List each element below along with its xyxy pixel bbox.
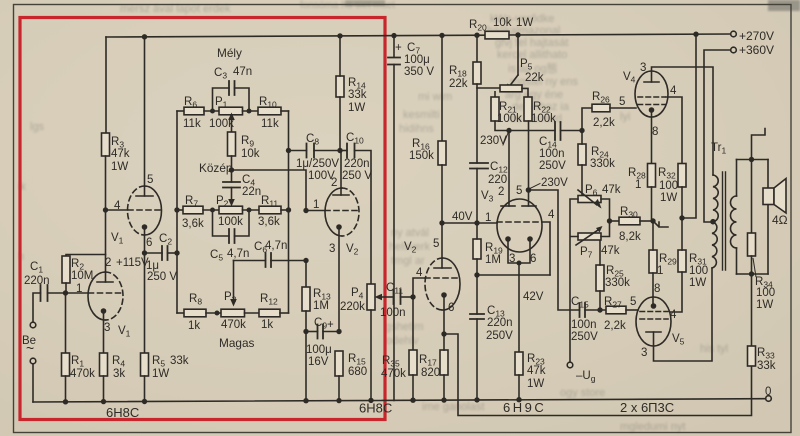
wire: feedback line from V2b cathode to R33: [444, 334, 752, 416]
resistor R18: [473, 62, 481, 84]
svg-text:100k: 100k: [497, 113, 522, 125]
wire: R1 feed: [65, 293, 67, 353]
node: rail junction R16: [439, 33, 444, 38]
potentiometer P1: [219, 107, 243, 115]
wire: R19 leads: [476, 223, 478, 275]
wire: R10 to right rail: [281, 110, 289, 112]
terminal +360V: [731, 47, 737, 53]
V1a cathode: [101, 308, 107, 314]
node: C14 / R26 / R24 junction: [579, 128, 584, 133]
potentiometer P3: [221, 309, 245, 317]
svg-text:100n: 100n: [571, 319, 597, 331]
svg-text:47n: 47n: [233, 66, 252, 78]
wire: C6 to V2a grid column: [271, 260, 306, 262]
wire: bracket to R30: [610, 220, 620, 222]
wire: R23 to ground rail: [518, 375, 520, 400]
svg-text:5: 5: [433, 238, 439, 250]
svg-text:220n: 220n: [487, 317, 513, 329]
wire: rail to R6: [177, 110, 184, 112]
wire: V3 left plate lead: [508, 131, 510, 207]
wire: tone network right rail: [288, 111, 290, 313]
wire: B+ top rail left part: [106, 35, 485, 37]
node: C15 / R25 / R27 junction: [597, 307, 602, 312]
wire: R1 to ground rail: [65, 376, 67, 402]
beam tetrode V5 envelope: [636, 297, 671, 346]
svg-text:1k: 1k: [261, 319, 273, 331]
svg-text:33k: 33k: [170, 355, 189, 367]
svg-text:330k: 330k: [605, 277, 630, 289]
svg-text:5: 5: [619, 96, 625, 108]
resistor R16: [438, 141, 446, 165]
svg-text:6H9C: 6H9C: [503, 400, 546, 415]
wire: V1a cathode to R4: [103, 311, 105, 353]
wire: R3 to V1b grid node to V1a plate: [105, 156, 107, 272]
resistor R1: [62, 353, 70, 376]
wire: V3 cathode bracket: [508, 239, 530, 263]
svg-text:100μ: 100μ: [306, 344, 332, 356]
wire: R13 to C9 node: [305, 311, 307, 332]
terminal Be lower: [30, 358, 36, 364]
230V leader line: [503, 133, 508, 145]
triode V1b envelope: [145, 186, 162, 235]
potentiometer P5: [500, 85, 522, 92]
wire: V4 plate to transformer primary top: [652, 67, 714, 175]
resistor R24: [578, 144, 586, 165]
resistor R5: [141, 353, 149, 376]
V2a grid dashes: [325, 210, 359, 212]
wire: mid line to V2a grid column: [232, 170, 307, 211]
svg-text:2 x 6П3C: 2 x 6П3C: [620, 400, 674, 415]
svg-text:100n: 100n: [539, 148, 565, 160]
svg-text:6H8C: 6H8C: [359, 401, 392, 416]
wire: node to R31: [681, 218, 683, 250]
wire: R5 to ground rail: [144, 376, 146, 402]
node: rail junction P5: [515, 32, 520, 37]
resistor R13: [302, 287, 310, 311]
wire: R32 to screen node: [681, 187, 683, 218]
potentiometer P2: [219, 206, 243, 214]
node: R19 top junction: [474, 220, 479, 225]
wire: P3 to R12: [245, 312, 260, 314]
resistor R6: [184, 107, 204, 115]
capacitor C11 plates: [394, 290, 401, 304]
V4 grid dashes: [638, 96, 665, 98]
wire: R2 top to plate line: [66, 255, 106, 257]
svg-text:ny atvál: ny atvál: [391, 227, 429, 239]
wire: R6 to P1: [204, 110, 219, 112]
resistor R15: [335, 351, 343, 376]
svg-text:1W: 1W: [516, 17, 533, 29]
svg-text:100μ: 100μ: [404, 54, 430, 66]
svg-text:820: 820: [421, 367, 440, 379]
svg-text:47k: 47k: [601, 245, 620, 257]
V2a cathode: [336, 224, 342, 230]
svg-text:~: ~: [26, 340, 34, 356]
leader R34: [753, 258, 756, 277]
svg-text:6H8C: 6H8C: [106, 405, 139, 420]
wire: R14 to plate node: [339, 97, 341, 151]
wire: R35 feed: [412, 297, 414, 350]
node: rail junction +270 screen feed: [693, 32, 698, 37]
potentiometer P4: [367, 284, 375, 310]
svg-text:47k: 47k: [602, 184, 621, 196]
svg-text:100k: 100k: [531, 113, 556, 125]
wire: R13 node to ground rail: [305, 332, 307, 401]
wire: R25 top to P7 wiper: [599, 237, 601, 265]
wire: R31 to V5 screen pin4: [670, 272, 682, 312]
potentiometer P6: [578, 196, 601, 203]
wire: V3 right grid to R19 bottom line: [542, 222, 550, 275]
wire: P5 wiper feed from rail: [517, 35, 519, 75]
wire: branch to P5 left: [477, 87, 500, 89]
capacitor C13 plates: [470, 314, 484, 319]
svg-text:0: 0: [765, 386, 771, 398]
capacitor C3 plates: [229, 81, 235, 95]
node: cathode / R15 junction: [336, 329, 341, 334]
svg-text:1W: 1W: [152, 368, 169, 380]
node: R14 / C8 / C10 / V2a plate junction: [337, 148, 342, 153]
svg-text:lgs: lgs: [30, 121, 45, 133]
P7 wiper arrow: [576, 230, 598, 245]
svg-text:3: 3: [641, 347, 647, 359]
node: bracket to R30: [607, 218, 612, 223]
resistor R27: [606, 306, 626, 314]
capacitor C5 bridge left: [213, 210, 230, 236]
svg-text:3: 3: [329, 243, 335, 255]
wire: P6/P7 left bracket down to -Ug: [570, 199, 578, 362]
svg-text:1W: 1W: [660, 192, 677, 204]
node: R9 / C4 / grid-line junction: [229, 167, 234, 172]
wire: R35 to ground rail: [412, 375, 414, 400]
wire: secondary top to speaker loop: [736, 160, 738, 197]
wire: R8 to P3: [206, 312, 221, 314]
capacitor C5 bridge right: [235, 210, 250, 236]
wire: R28 to junction: [651, 187, 653, 221]
V1a plate bar: [97, 281, 113, 283]
svg-text:3,6k: 3,6k: [182, 218, 204, 230]
resistor R35: [409, 350, 417, 375]
capacitor C1 plates: [41, 285, 48, 301]
wire: R19 bottom line: [477, 274, 550, 276]
resistor R32: [678, 164, 686, 188]
V5 cathode: [651, 303, 657, 309]
V5 plate bar: [646, 331, 661, 333]
triode V1a envelope: [88, 272, 106, 320]
230V leader right: [530, 184, 540, 189]
wire: 40V line to V3 grid: [442, 222, 497, 224]
P1 wiper arrow: [231, 118, 233, 132]
wire: C11 to grid node of V2b: [401, 296, 414, 298]
svg-text:4: 4: [670, 309, 677, 321]
wire: V1b cathode down to C2 node: [144, 227, 146, 253]
svg-text:250V: 250V: [486, 330, 513, 342]
resistor R29: [649, 250, 657, 273]
terminal Be upper: [30, 322, 36, 328]
V1a grid dashes: [89, 292, 123, 294]
resistor R17: [440, 350, 448, 375]
svg-text:+: +: [327, 319, 334, 331]
P4 wiper arrow: [381, 296, 392, 298]
svg-text:+115V: +115V: [116, 257, 149, 269]
svg-text:22k: 22k: [449, 78, 468, 90]
svg-text:kercel allithato: kercel allithato: [497, 49, 567, 61]
svg-text:1: 1: [657, 265, 663, 277]
wire: C1 to grid node: [48, 292, 66, 294]
node: C5 left tap: [210, 208, 215, 213]
wire: V2b cathode down: [443, 295, 445, 334]
node: V2a grid junction: [303, 208, 308, 213]
resistor R25: [596, 265, 604, 291]
wire: C15 to R27 node: [585, 309, 606, 311]
wire: R17 to ground rail: [443, 375, 445, 400]
wire: V3 right plate lead up to R22: [528, 121, 530, 206]
red highlight rectangle: [20, 18, 385, 420]
capacitor C8 plates: [307, 144, 315, 158]
svg-text:3: 3: [640, 62, 646, 74]
node: rail junction R18: [474, 33, 479, 38]
svg-text:6: 6: [146, 237, 152, 249]
wire: R26 to V4 grid: [610, 107, 636, 109]
svg-text:tmgl ar: tmgl ar: [391, 255, 425, 267]
resistor R20 (in rail): [485, 31, 509, 39]
transformer Tr1 primary winding: [712, 175, 718, 268]
wire: R15 to ground rail: [338, 376, 340, 401]
wire: V1b plate lead from rail: [144, 37, 146, 196]
svg-text:100: 100: [659, 180, 678, 192]
svg-text:150k: 150k: [409, 150, 434, 162]
wire: R18 from rail: [476, 35, 478, 62]
svg-text:16V: 16V: [308, 356, 329, 368]
node: V3 plate junction 230V: [506, 128, 511, 133]
wire: R27 to V5 grid: [626, 309, 638, 311]
wire: R21/R22 bottoms to C14: [495, 121, 555, 131]
svg-text:gshetim: gshetim: [385, 321, 424, 333]
wire: 230V drop to C15: [529, 190, 580, 310]
wire: tone network left rail: [176, 111, 178, 313]
svg-text:2,2k: 2,2k: [593, 117, 615, 129]
svg-text:10k: 10k: [241, 148, 260, 160]
svg-text:1k: 1k: [188, 320, 200, 332]
wire: bottom node to R33: [751, 274, 753, 346]
wire: node to C13: [476, 275, 478, 314]
node: cathode / R17 / feedback junction: [441, 331, 446, 336]
svg-text:hidihns: hidihns: [399, 123, 434, 135]
wire: B+ top rail right part: [509, 34, 731, 35]
V3 cathodes: [505, 236, 511, 242]
capacitor C9 plates: [318, 325, 324, 339]
node: R28/R29/R30 junction: [650, 218, 655, 223]
wire: R7 to P2: [203, 209, 219, 211]
svg-text:Mély: Mély: [217, 46, 242, 60]
wire: R11 to right rail: [281, 209, 289, 211]
svg-text:40V: 40V: [452, 211, 473, 223]
speaker 4 ohm: [763, 188, 774, 205]
svg-text:350 V: 350 V: [404, 66, 434, 78]
svg-text:22n: 22n: [242, 186, 261, 198]
resistor R33: [748, 346, 756, 366]
node: C5 right tap: [247, 208, 252, 213]
svg-text:2,2k: 2,2k: [604, 320, 626, 332]
capacitor C5 plates: [229, 229, 235, 243]
resistor R2: [62, 256, 70, 283]
svg-text:2: 2: [498, 186, 504, 198]
capacitor C10 plates: [347, 144, 355, 158]
wire: speaker branch: [767, 160, 769, 275]
svg-text:1W: 1W: [756, 299, 773, 311]
wire: V5 plate to transformer primary bottom: [654, 268, 713, 361]
node: right rail C8 junction: [286, 148, 291, 153]
svg-text:11k: 11k: [183, 118, 201, 130]
svg-text:4,7n: 4,7n: [265, 240, 287, 252]
capacitor C15 plates: [580, 303, 586, 317]
wire: junction to R29: [652, 221, 654, 250]
wire: +360V feed: [704, 50, 731, 222]
node: grid column treble junction: [303, 258, 308, 263]
wire: V4 cathode to R28: [651, 110, 653, 164]
node: R19 bottom junction: [474, 272, 479, 277]
wire: V2b plate lead to 40V node: [441, 223, 443, 268]
svg-text:680: 680: [348, 366, 367, 378]
node: tone rail C2 junction: [174, 250, 179, 255]
svg-text:3,6k: 3,6k: [258, 216, 280, 228]
terminal +270V: [731, 31, 737, 37]
wire: R9 to mid line: [231, 156, 233, 170]
wire: P4 to ground rail: [370, 310, 372, 400]
svg-text:22k: 22k: [525, 72, 544, 84]
V3 grid dashes: [497, 221, 542, 223]
svg-text:2: 2: [331, 177, 337, 189]
resistor R21: [491, 97, 499, 121]
resistor R26: [592, 104, 610, 112]
wire: node up to R26: [582, 108, 592, 131]
wire: node up to V2b grid: [413, 278, 425, 297]
svg-text:230V: 230V: [480, 135, 507, 147]
wire: P5 right end to R22: [522, 88, 528, 97]
svg-text:47k: 47k: [527, 365, 546, 377]
svg-text:220n: 220n: [344, 158, 370, 170]
capacitor C4 plates: [223, 182, 240, 188]
P6 wiper arrow: [578, 190, 597, 205]
wire: cathode node to C2: [145, 252, 163, 254]
resistor R22: [524, 97, 532, 121]
terminal 0: [766, 396, 772, 402]
svg-text:100k: 100k: [218, 216, 243, 228]
wire: cathode down to R23: [518, 263, 520, 352]
svg-text:mi wim: mi wim: [418, 91, 452, 103]
svg-text:11k: 11k: [261, 118, 279, 130]
svg-text:1: 1: [313, 199, 319, 211]
wire: node to R17: [443, 334, 445, 350]
wire: R16 from rail: [441, 35, 443, 141]
wire: speaker loop bottom line: [737, 273, 769, 275]
svg-text:250V: 250V: [539, 160, 566, 172]
wire: R5 feed down: [144, 253, 146, 353]
svg-text:lyi: lyi: [620, 111, 630, 123]
svg-text:100k: 100k: [209, 118, 234, 130]
wire: grid node to V1a grid: [66, 292, 89, 294]
svg-text:+360V: +360V: [739, 43, 774, 57]
svg-text:odehlv: odehlv: [386, 335, 419, 347]
svg-text:470k: 470k: [221, 319, 246, 331]
wire: V4 screen pin4 to R32: [666, 97, 682, 164]
svg-text:8,2k: 8,2k: [619, 231, 641, 243]
node: feedback tap top: [749, 157, 754, 162]
node: primary centre tap: [710, 219, 716, 225]
wire: lower input terminal to ground rail: [32, 364, 34, 402]
wire: R16 to 40V line: [441, 165, 443, 223]
wire: rail to C8: [289, 150, 307, 152]
resistor R11: [259, 206, 281, 214]
resistor R3: [102, 133, 110, 156]
svg-text:1: 1: [76, 283, 82, 295]
svg-text:3: 3: [509, 253, 515, 265]
ground rail: [33, 399, 766, 402]
svg-text:1W: 1W: [111, 161, 128, 173]
triode V2b envelope: [443, 258, 461, 310]
dark scan band top-right corner: [768, 0, 800, 11]
V3 right plate bar: [522, 205, 536, 207]
svg-text:10M: 10M: [71, 270, 93, 282]
P5 wiper arrow: [509, 75, 519, 88]
wire: R34 branch: [751, 160, 753, 234]
node: V1b grid junction: [103, 207, 108, 212]
node: C11 / R35 / grid junction: [410, 294, 415, 299]
wire: V2a plate lead: [340, 151, 342, 196]
svg-text:4: 4: [548, 209, 555, 221]
svg-text:ogy store: ogy store: [560, 387, 605, 399]
svg-text:42V: 42V: [523, 291, 544, 303]
wire: C7 to ground rail: [393, 65, 395, 401]
capacitor C3 bridge left: [213, 88, 230, 111]
wire: R29 to V5 cathode pin8: [652, 273, 654, 306]
wire: C8 to R14 node: [314, 150, 340, 152]
svg-text:5: 5: [147, 174, 153, 186]
svg-text:220n: 220n: [24, 275, 50, 287]
svg-text:250 V: 250 V: [147, 271, 177, 283]
node: C3 right tap: [247, 109, 252, 114]
wire: rail to R7: [177, 209, 183, 211]
svg-text:Magas: Magas: [219, 336, 255, 350]
wire: P6/P7 right bracket: [601, 199, 610, 237]
svg-text:1: 1: [485, 212, 491, 224]
node: V3 plate 230V junction: [526, 187, 532, 193]
wire: grid column down through R13: [305, 261, 307, 288]
svg-text:6: 6: [448, 302, 454, 314]
svg-text:Közép: Közép: [199, 161, 233, 175]
svg-text:3: 3: [104, 322, 110, 334]
svg-text:33k: 33k: [348, 89, 367, 101]
terminal -Ug: [567, 362, 573, 368]
svg-text:4: 4: [114, 200, 121, 212]
svg-text:kesmilti: kesmilti: [403, 109, 440, 121]
wire: treble line from P3 wiper to C6: [234, 260, 266, 262]
svg-text:+270V: +270V: [739, 29, 774, 43]
wire: node to C4: [231, 170, 233, 182]
svg-text:47k: 47k: [111, 148, 130, 160]
V1a plate lead inside: [105, 272, 107, 282]
wire: input to C1: [33, 293, 41, 322]
node: C3 left tap: [210, 109, 215, 114]
wire: C9 to cathode node: [323, 331, 339, 333]
V1b grid dashes: [128, 209, 161, 211]
node: V1a grid junction: [63, 290, 68, 295]
wire: rail to R14: [339, 36, 341, 76]
node: right rail R11 junction: [286, 207, 291, 212]
wire: C2 to tone rail: [168, 252, 178, 254]
svg-text:1W: 1W: [689, 277, 706, 289]
wire: P2 to R11: [243, 209, 260, 211]
node: rail junction R14: [337, 33, 342, 38]
